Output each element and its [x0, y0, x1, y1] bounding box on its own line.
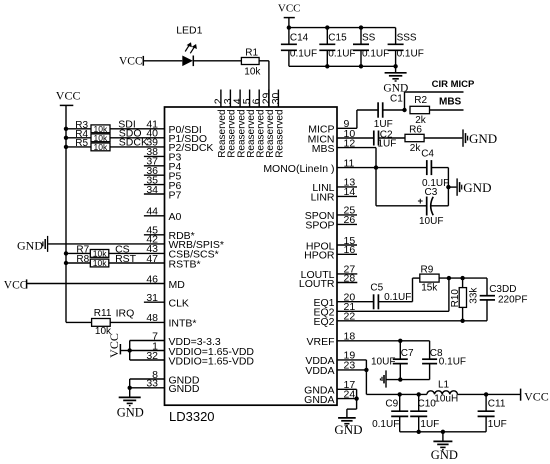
wire loop bottom right: [431, 205, 449, 207]
pin 47 RSTB* (left): [109, 253, 201, 271]
wire GNDA bracket: [356, 389, 358, 398]
IC U1 name label LD3320: [169, 409, 215, 424]
wire stub to GND: [448, 186, 456, 188]
svg-text:P7: P7: [169, 189, 182, 201]
pin 5 Reaserved (top): [241, 90, 253, 108]
svg-text:1UF: 1UF: [378, 139, 397, 150]
net label CS: [115, 243, 130, 255]
svg-text:GND: GND: [334, 422, 362, 437]
svg-text:18: 18: [344, 331, 356, 343]
svg-text:L1: L1: [438, 380, 450, 391]
resistor R9 15k: [420, 264, 439, 293]
capacitor C5 0.1UF: [370, 283, 411, 310]
wire R1 to pin 29: [259, 61, 269, 107]
wire EQ2 pin21 riser: [448, 278, 450, 311]
power symbol VCC (LED1): [119, 55, 143, 67]
wire up to CIR MICP line: [404, 92, 406, 110]
svg-text:IRQ: IRQ: [116, 308, 135, 320]
svg-text:1UF: 1UF: [374, 119, 393, 130]
pin 19 VDDA (right): [305, 350, 366, 368]
power symbol VCC (L1 output): [521, 389, 549, 404]
pin 39 P2/SDCK (left): [110, 137, 213, 155]
svg-text:10k: 10k: [244, 67, 261, 78]
resistor R4 10k pull-up: [66, 129, 110, 143]
svg-text:VDDIO=1.65-VDD: VDDIO=1.65-VDD: [169, 355, 255, 367]
ground GND (R6 row, sideways): [463, 129, 497, 146]
svg-text:32: 32: [146, 350, 158, 362]
capacitor C3DD 220PF: [480, 278, 528, 321]
svg-text:R1: R1: [245, 48, 258, 59]
pin 38 P3 (left): [144, 146, 182, 164]
junction VREF-C7: [398, 339, 402, 343]
svg-text:14: 14: [344, 186, 356, 198]
svg-text:15k: 15k: [421, 282, 438, 293]
pin 1 VDDIO=1.65-VDD (left): [130, 340, 255, 358]
ground GND (pin 42 WRB row): [17, 236, 48, 252]
label Reaserved for pin 4: [236, 109, 247, 157]
resistor R1 10k: [241, 48, 261, 78]
svg-text:GND: GND: [431, 448, 458, 462]
junction C4 GND node: [446, 185, 450, 189]
wire corner up to R9 row: [413, 278, 420, 302]
ground GND (cap bank): [383, 66, 408, 94]
svg-text:33: 33: [146, 378, 158, 390]
capacitor C4 0.1UF: [421, 148, 449, 189]
junction rail-R7: [64, 251, 68, 255]
svg-text:R10: R10: [450, 289, 461, 308]
svg-text:LINR: LINR: [311, 192, 335, 204]
pin 7 VDD=3-3.3 (left): [130, 330, 221, 348]
wire C2 to R6: [379, 137, 406, 139]
junction rail-R5: [64, 145, 68, 149]
junction rail-R3: [64, 127, 68, 131]
label Reaserved for pin 5: [246, 109, 257, 157]
svg-text:0.1UF: 0.1UF: [397, 49, 424, 60]
pin 32 VDDIO=1.65-VDD (left): [130, 350, 255, 368]
ground GND (decoupling rail): [431, 432, 458, 462]
label Reaserved for pin 30: [275, 109, 286, 157]
svg-text:10UF: 10UF: [371, 356, 395, 367]
junction rail-R8: [64, 261, 68, 265]
svg-text:10k: 10k: [93, 258, 107, 268]
wire VDDA rail right: [458, 393, 521, 395]
resistor R3 10k pull-up: [66, 120, 110, 134]
wire VDD bracket (pins 7,1,32): [129, 341, 131, 361]
svg-text:MBS: MBS: [439, 97, 462, 108]
svg-text:C14: C14: [290, 33, 309, 44]
svg-text:34: 34: [146, 184, 158, 196]
pin 25 SPON (right): [305, 205, 357, 223]
svg-text:10k: 10k: [93, 248, 107, 258]
svg-text:VCC: VCC: [107, 333, 121, 358]
svg-text:R2: R2: [414, 95, 427, 106]
svg-text:33k: 33k: [468, 287, 479, 304]
svg-text:GND: GND: [17, 238, 43, 252]
svg-text:LD3320: LD3320: [169, 409, 215, 424]
junction bottom-GND: [441, 430, 445, 434]
pin 16 HPOR (right): [304, 244, 357, 262]
wire R6 to GND: [424, 137, 462, 139]
svg-text:1UF: 1UF: [420, 419, 439, 430]
wire GNDA to ground: [347, 399, 357, 418]
svg-text:C11: C11: [488, 399, 506, 410]
junction MONO node: [374, 165, 378, 169]
net label RST: [115, 253, 137, 265]
svg-text:Reaserved: Reaserved: [275, 109, 286, 157]
pin 17 GNDA (right): [304, 379, 356, 397]
wire GNDD bracket (pins 8,33): [129, 379, 131, 388]
resistor R7 10k pull-up: [66, 244, 109, 258]
pin 12 MBS (right): [312, 137, 376, 155]
svg-text:C4: C4: [421, 148, 434, 159]
resistor R5 10k pull-up: [66, 138, 110, 152]
svg-text:10UF: 10UF: [419, 216, 443, 227]
wire VDDA rail left: [366, 393, 427, 395]
label Reaserved for pin 2: [217, 109, 228, 157]
capacitor C15 0.1UF: [319, 28, 355, 67]
ground GND (C4 node, sideways): [457, 178, 491, 195]
pin 48 INTB* (left): [110, 312, 196, 330]
pin 13 LINL (right): [312, 177, 357, 195]
wire decoupling bottom rail: [400, 431, 486, 433]
net label CIR MICP: [432, 79, 475, 90]
pin 41 P0/SDI (left): [110, 119, 202, 137]
wire VCC to LED1: [143, 60, 182, 62]
svg-text:C7: C7: [401, 348, 414, 359]
svg-text:SS: SS: [362, 33, 376, 44]
pin 8 GNDD (left): [130, 369, 200, 387]
svg-text:HPOR: HPOR: [304, 250, 335, 262]
svg-text:C5: C5: [370, 283, 383, 294]
label LED1: [176, 24, 202, 36]
svg-text:C10: C10: [418, 399, 437, 410]
svg-text:1UF: 1UF: [488, 419, 507, 430]
svg-text:0.1UF: 0.1UF: [372, 419, 399, 430]
svg-text:220PF: 220PF: [498, 295, 527, 306]
capacitor C9 0.1UF: [372, 394, 408, 431]
ground GND (GNDA pins 17,24): [334, 418, 362, 437]
svg-text:GND: GND: [469, 131, 497, 146]
wire R2 to MBS: [430, 109, 464, 111]
svg-text:EQ2: EQ2: [313, 316, 334, 328]
pin 46 MD (left): [27, 273, 186, 291]
pin 44 A0 (left): [144, 206, 182, 224]
pin 14 LINR (right): [311, 186, 357, 204]
pin 24 GNDA (right): [304, 388, 356, 406]
svg-text:2k: 2k: [410, 143, 422, 154]
resistor R10 33k (vertical): [450, 278, 479, 321]
power symbol VCC (MD pin 46): [4, 279, 28, 291]
pin 4 Reaserved (top): [232, 90, 244, 108]
svg-text:30: 30: [270, 92, 282, 104]
wire pin 12 down: [375, 148, 377, 206]
capacitor C11 1UF: [478, 394, 507, 431]
svg-text:0.1UF: 0.1UF: [290, 49, 317, 60]
wire C7/C8 bottom rail: [386, 379, 429, 381]
ground GND (VREF, sideways left): [380, 370, 386, 387]
pin 29 Reaserved (top): [260, 90, 272, 108]
svg-text:SPOP: SPOP: [305, 220, 334, 232]
wire VCC pull-up rail vertical: [66, 105, 92, 322]
junction C7 bottom: [398, 377, 402, 381]
svg-text:11: 11: [344, 157, 355, 169]
svg-text:R11: R11: [94, 308, 112, 319]
net label IRQ: [116, 308, 135, 320]
pin 21 EQ2 (right): [313, 301, 448, 319]
net label SDCK: [119, 137, 148, 149]
pin 11 MONO(LineIn ) (right): [263, 157, 376, 175]
junction GNDD: [128, 386, 132, 390]
pin 22 EQ2 (right): [313, 311, 487, 329]
svg-text:0.1UF: 0.1UF: [439, 356, 466, 367]
IC U1 LD3320 body outline: [165, 107, 338, 405]
junction C1-R2-CIRMICP: [402, 108, 406, 112]
svg-text:SDCK: SDCK: [119, 137, 148, 149]
junction bottom-C10: [417, 430, 421, 434]
svg-text:R8: R8: [76, 254, 89, 265]
svg-text:LED1: LED1: [176, 24, 202, 36]
pin 45 RDB* (left): [144, 225, 195, 243]
pin 43 CSB/SCS* (left): [109, 243, 219, 261]
svg-text:VCC: VCC: [4, 279, 28, 291]
pin 2 Reaserved (top): [212, 90, 224, 108]
svg-text:47: 47: [146, 253, 158, 265]
capacitor C8 0.1UF: [422, 341, 466, 380]
resistor R2 2k: [410, 95, 430, 126]
svg-text:C1: C1: [390, 93, 403, 104]
resistor R8 10k pull-up: [66, 254, 109, 268]
svg-text:MBS: MBS: [312, 143, 335, 155]
pin 33 GNDD (left): [130, 378, 200, 396]
wire R9 output: [439, 277, 487, 279]
svg-text:INTB*: INTB*: [169, 318, 197, 330]
wire cap bank top rail: [289, 27, 396, 29]
label Reaserved for pin 6: [255, 109, 266, 157]
capacitor C14 0.1UF: [281, 28, 317, 67]
pin 3 Reaserved (top): [222, 90, 234, 108]
net label MBS: [439, 97, 462, 108]
wire net CIR MICP: [405, 91, 464, 93]
svg-text:MD: MD: [169, 279, 186, 291]
pin 35 P6 (left): [144, 174, 182, 192]
junction VDDA pins: [364, 368, 368, 372]
capacitor SSS 0.1UF: [388, 28, 424, 67]
wire C4 to right corner: [431, 167, 448, 169]
wire loop bottom left: [376, 205, 427, 207]
junction R9-EQ2: [447, 276, 451, 280]
svg-text:CLK: CLK: [169, 298, 189, 310]
junction rail-C10: [417, 392, 421, 396]
capacitor C2 1UF: [374, 129, 397, 149]
inductor L1 10uH: [427, 380, 458, 405]
svg-text:VCC: VCC: [524, 389, 549, 403]
svg-text:23: 23: [344, 360, 356, 372]
svg-text:GNDA: GNDA: [304, 394, 334, 406]
svg-text:CIR MICP: CIR MICP: [432, 79, 475, 90]
svg-text:C3DD: C3DD: [489, 284, 516, 295]
svg-text:SSS: SSS: [397, 33, 417, 44]
capacitor C10 1UF: [410, 394, 439, 431]
LED LED1: [182, 42, 197, 66]
wire C1 to R2 node: [383, 109, 405, 111]
pin 34 P7 (left): [144, 184, 182, 202]
pin 9 MICP (right): [308, 118, 357, 136]
svg-text:VREF: VREF: [306, 336, 334, 348]
svg-text:VDDA: VDDA: [305, 365, 334, 377]
junction bottom rail C15: [325, 64, 329, 68]
svg-text:C3: C3: [425, 187, 438, 198]
ground GND (GNDD pins 8,33): [117, 388, 144, 420]
svg-text:VCC: VCC: [278, 3, 301, 15]
junction rail-C9: [398, 392, 402, 396]
svg-text:R9: R9: [421, 264, 434, 275]
junction rail-R4: [64, 136, 68, 140]
svg-text:0.1UF: 0.1UF: [362, 49, 389, 60]
pin 15 HPOL (right): [306, 235, 357, 253]
wire cap bank bottom rail: [289, 65, 396, 67]
junction R9-R10: [460, 276, 464, 280]
pin 6 Reaserved (top): [251, 90, 263, 108]
svg-text:A0: A0: [169, 211, 182, 223]
junction bottom rail SS: [359, 64, 363, 68]
svg-text:GND: GND: [117, 405, 144, 419]
svg-text:C9: C9: [385, 399, 398, 410]
svg-text:0.1UF: 0.1UF: [328, 49, 355, 60]
svg-text:VCC: VCC: [119, 55, 143, 67]
svg-text:MONO(LineIn ): MONO(LineIn ): [263, 163, 334, 175]
svg-text:R6: R6: [409, 124, 422, 135]
pin 42 WRB/SPIS* (left): [48, 234, 224, 252]
label Reaserved for pin 29: [265, 109, 276, 157]
capacitor C3 10UF electrolytic: [418, 187, 444, 227]
svg-text:GND: GND: [463, 180, 491, 195]
svg-text:RST: RST: [115, 253, 137, 265]
svg-text:48: 48: [146, 312, 158, 324]
label Reaserved for pin 3: [227, 109, 238, 157]
pin 37 P4 (left): [144, 156, 182, 174]
wire to C1: [357, 109, 378, 111]
capacitor SS 0.1UF: [353, 28, 389, 67]
pin 10 MICN (right): [308, 128, 374, 146]
svg-text:46: 46: [146, 273, 158, 285]
capacitor C1 1UF: [374, 93, 403, 130]
svg-text:LOUTR: LOUTR: [299, 278, 335, 290]
pin 27 LOUTL (right): [301, 264, 358, 282]
svg-text:16: 16: [344, 244, 356, 256]
pin 36 P5 (left): [144, 165, 182, 183]
wire pin 9 up to C1 row: [356, 110, 358, 128]
resistor R11 10k (IRQ): [92, 308, 112, 337]
pin 23 VDDA (right): [305, 360, 366, 378]
junction top rail VCC: [287, 25, 291, 29]
pin 26 SPOP (right): [305, 214, 357, 232]
junction GNDA: [354, 396, 358, 400]
wire LED1 to R1: [193, 60, 241, 62]
svg-text:31: 31: [146, 292, 158, 304]
junction top rail C15: [325, 25, 329, 29]
pin 40 P1/SDO (left): [110, 128, 207, 146]
pin 30 Reaserved (top): [270, 90, 282, 108]
svg-text:26: 26: [344, 214, 356, 226]
wire C5 to corner: [378, 301, 412, 303]
resistor R6 2k: [405, 124, 424, 154]
svg-text:GNDD: GNDD: [169, 383, 200, 395]
power symbol VCC (rotated, VDD pins): [107, 333, 130, 358]
svg-text:10uH: 10uH: [434, 394, 458, 405]
svg-text:12: 12: [344, 137, 356, 149]
svg-text:+: +: [418, 196, 424, 207]
junction VDD-VCC: [128, 348, 132, 352]
net label SDI: [118, 119, 136, 131]
svg-text:C15: C15: [328, 33, 347, 44]
pin 20 EQ1 (right): [313, 292, 373, 310]
svg-text:VCC: VCC: [56, 89, 81, 103]
capacitor C7 10UF: [371, 341, 414, 380]
svg-text:22: 22: [344, 311, 356, 323]
svg-text:10k: 10k: [94, 142, 108, 152]
pin 18 VREF (right): [306, 331, 429, 349]
svg-text:24: 24: [344, 388, 356, 400]
power symbol VCC (top-left): [56, 89, 81, 106]
wire right side of loop: [447, 168, 449, 206]
power symbol VCC (cap bank): [278, 3, 301, 28]
junction top rail SS: [359, 25, 363, 29]
pin 31 CLK (left): [144, 292, 189, 310]
svg-text:RSTB*: RSTB*: [169, 258, 201, 270]
junction R10-EQ2 rail: [460, 319, 464, 323]
wire MONO to C4: [376, 167, 427, 169]
svg-text:R5: R5: [75, 138, 88, 149]
wire VDDA riser: [365, 360, 367, 395]
junction bottom rail GND: [393, 64, 397, 68]
net label SDO: [119, 128, 142, 140]
svg-text:44: 44: [146, 206, 158, 218]
svg-text:28: 28: [344, 272, 356, 284]
junction rail-C11: [484, 392, 488, 396]
pin 28 LOUTR (right): [299, 272, 357, 290]
